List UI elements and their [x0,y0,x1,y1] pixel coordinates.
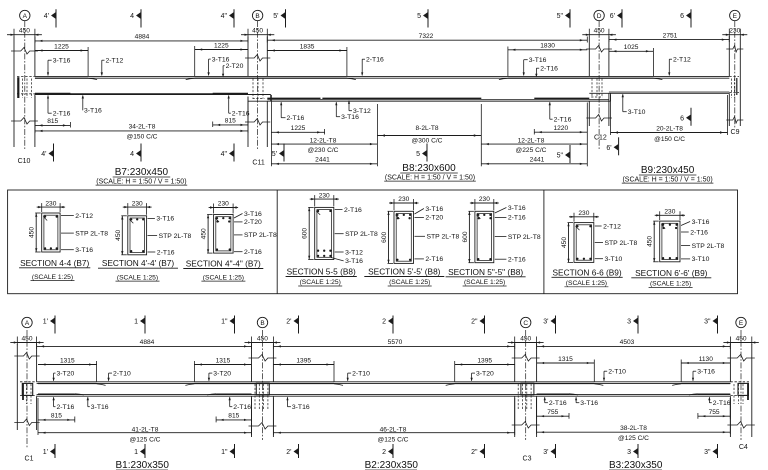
svg-text:1315: 1315 [558,356,573,363]
svg-text:34-2L-T8: 34-2L-T8 [129,123,156,130]
svg-text:2-T12: 2-T12 [603,223,621,230]
svg-text:1: 1 [134,449,138,456]
svg-text:450: 450 [736,335,747,342]
svg-text:2-T12: 2-T12 [75,213,93,220]
svg-text:6: 6 [680,13,684,20]
svg-text:3-T16: 3-T16 [75,247,93,254]
svg-text:STP 2L-T8: STP 2L-T8 [508,234,541,241]
svg-text:3-T10: 3-T10 [628,109,646,116]
svg-text:2-T16: 2-T16 [53,111,71,118]
svg-text:2-T16: 2-T16 [425,256,443,263]
svg-text:(SCALE 1:25): (SCALE 1:25) [650,281,691,288]
svg-text:3-T16: 3-T16 [529,57,547,64]
svg-text:815: 815 [228,413,239,420]
svg-text:2-T16: 2-T16 [540,66,558,73]
svg-text:450: 450 [29,227,36,238]
svg-text:1025: 1025 [624,44,639,51]
svg-text:2-T10: 2-T10 [608,369,626,376]
svg-text:STP 2L-T8: STP 2L-T8 [605,240,638,247]
svg-text:2-T16: 2-T16 [233,404,251,411]
svg-text:450: 450 [647,236,654,247]
svg-text:6': 6' [610,13,615,20]
svg-text:(SCALE: H = 1:50 / V = 1:50): (SCALE: H = 1:50 / V = 1:50) [622,176,712,183]
svg-text:(SCALE 1:25): (SCALE 1:25) [300,279,341,286]
svg-text:1225: 1225 [291,125,306,132]
svg-text:E: E [739,320,744,327]
svg-text:C: C [523,320,528,327]
svg-text:STP 2L-T8: STP 2L-T8 [345,231,378,238]
svg-text:3-T10: 3-T10 [605,256,623,263]
svg-text:450: 450 [594,28,605,35]
svg-text:1315: 1315 [60,357,75,364]
svg-text:230: 230 [729,28,740,35]
svg-text:1": 1" [221,449,228,456]
svg-text:3: 3 [627,319,631,326]
svg-text:(SCALE 1:25): (SCALE 1:25) [566,280,607,287]
svg-text:5': 5' [272,151,277,158]
svg-text:1220: 1220 [553,125,568,132]
svg-text:1": 1" [221,319,228,326]
svg-text:SECTION 4-4 (B7): SECTION 4-4 (B7) [20,258,89,268]
svg-text:2-T16: 2-T16 [713,400,731,407]
svg-text:2-T10: 2-T10 [352,370,370,377]
svg-text:STP 2L-T8: STP 2L-T8 [427,234,460,241]
svg-text:4': 4' [41,151,46,158]
svg-text:C3: C3 [523,456,532,463]
svg-text:12-2L-T8: 12-2L-T8 [518,137,545,144]
svg-text:3-T16: 3-T16 [244,211,262,218]
svg-text:815: 815 [51,413,62,420]
svg-text:B9:230x450: B9:230x450 [641,165,695,176]
svg-text:3-T16: 3-T16 [292,404,310,411]
svg-text:815: 815 [47,118,58,125]
svg-text:2': 2' [286,449,291,456]
svg-text:230: 230 [578,210,589,217]
svg-text:(SCALE 1:25): (SCALE 1:25) [389,279,430,286]
svg-text:@125 C/C: @125 C/C [618,435,649,442]
svg-text:1830: 1830 [540,43,555,50]
svg-text:1130: 1130 [699,356,714,363]
svg-text:4884: 4884 [140,339,155,346]
svg-text:4': 4' [44,13,49,20]
svg-text:20-2L-T8: 20-2L-T8 [656,126,683,133]
svg-text:STP 2L-T8: STP 2L-T8 [75,230,108,237]
svg-text:3: 3 [627,449,631,456]
svg-text:@300 C/C: @300 C/C [412,137,443,144]
svg-text:1: 1 [134,319,138,326]
svg-text:12-2L-T8: 12-2L-T8 [310,137,337,144]
svg-text:C1: C1 [25,456,34,463]
svg-text:450: 450 [520,335,531,342]
svg-text:4": 4" [221,13,228,20]
svg-text:2": 2" [471,449,478,456]
svg-text:2-T20: 2-T20 [226,63,244,70]
svg-text:A: A [25,320,30,327]
svg-text:B3:230x350: B3:230x350 [609,460,663,470]
svg-text:2441: 2441 [530,156,545,163]
svg-text:B: B [255,13,259,20]
svg-text:3": 3" [704,449,711,456]
svg-text:1395: 1395 [296,357,311,364]
svg-text:1395: 1395 [477,357,492,364]
svg-text:2-T16: 2-T16 [554,117,572,124]
svg-text:2-T16: 2-T16 [344,207,362,214]
svg-text:E: E [733,13,738,20]
svg-text:450: 450 [115,229,122,240]
svg-text:2-T16: 2-T16 [244,249,262,256]
svg-text:3-T16: 3-T16 [341,114,359,121]
svg-text:3-T16: 3-T16 [697,369,715,376]
svg-text:3-T16: 3-T16 [345,258,363,265]
svg-text:3-T20: 3-T20 [213,370,231,377]
svg-text:5: 5 [417,13,421,20]
svg-text:C11: C11 [252,160,264,167]
svg-text:SECTION 6'-6' (B9): SECTION 6'-6' (B9) [635,268,708,278]
svg-text:(SCALE 1:25): (SCALE 1:25) [117,274,158,281]
svg-text:3-T10: 3-T10 [692,256,710,263]
svg-text:6': 6' [606,145,611,152]
svg-text:2": 2" [471,319,478,326]
svg-text:2-T20: 2-T20 [425,215,443,222]
svg-text:450: 450 [21,335,32,342]
svg-text:B8:230x600: B8:230x600 [402,163,456,174]
svg-text:STP 2L-T8: STP 2L-T8 [159,233,192,240]
svg-text:(SCALE 1:25): (SCALE 1:25) [464,279,505,286]
svg-text:3-T16: 3-T16 [508,205,526,212]
svg-text:3-T20: 3-T20 [476,370,494,377]
svg-text:450: 450 [257,335,268,342]
svg-text:230: 230 [45,200,56,207]
svg-text:2-T16: 2-T16 [287,115,305,122]
svg-text:230: 230 [664,209,675,216]
svg-text:5570: 5570 [388,339,403,346]
svg-text:4: 4 [130,151,134,158]
svg-text:D: D [597,13,602,20]
svg-text:450: 450 [19,28,30,35]
svg-text:1835: 1835 [300,43,315,50]
svg-text:@225 C/C: @225 C/C [516,147,547,154]
svg-text:2441: 2441 [315,156,330,163]
svg-text:3': 3' [543,319,548,326]
svg-text:C9: C9 [731,129,740,136]
svg-text:600: 600 [302,228,309,239]
svg-text:2-T16: 2-T16 [690,229,708,236]
svg-text:755: 755 [547,409,558,416]
svg-text:3-T20: 3-T20 [57,370,75,377]
svg-text:5': 5' [273,13,278,20]
svg-text:2-T10: 2-T10 [113,370,131,377]
svg-text:1': 1' [43,319,48,326]
svg-text:5": 5" [557,13,564,20]
svg-text:(SCALE: H = 1:50 / V = 1:50): (SCALE: H = 1:50 / V = 1:50) [96,178,186,185]
svg-text:3-T16: 3-T16 [692,219,710,226]
svg-text:3-T16: 3-T16 [425,206,443,213]
svg-text:450: 450 [252,28,263,35]
svg-text:4: 4 [130,13,134,20]
svg-text:3-T16: 3-T16 [53,58,71,65]
svg-text:C10: C10 [18,158,31,165]
svg-text:@230 C/C: @230 C/C [308,147,339,154]
svg-text:A: A [23,13,28,20]
svg-text:1225: 1225 [54,43,69,50]
svg-text:STP 2L-T8: STP 2L-T8 [244,232,277,239]
svg-text:@150 C/C: @150 C/C [127,134,158,141]
svg-text:5: 5 [416,151,420,158]
svg-text:230: 230 [398,196,409,203]
svg-text:38-2L-T8: 38-2L-T8 [620,425,647,432]
svg-text:450: 450 [561,237,568,248]
svg-text:2: 2 [382,319,386,326]
svg-text:4884: 4884 [135,34,150,41]
svg-text:@150 C/C: @150 C/C [654,136,685,143]
svg-text:3-T16: 3-T16 [84,108,102,115]
svg-text:B2:230x350: B2:230x350 [365,460,419,470]
svg-text:SECTION 5-5 (B8): SECTION 5-5 (B8) [287,267,356,277]
svg-text:230: 230 [132,200,143,207]
svg-text:SECTION 4'-4' (B7): SECTION 4'-4' (B7) [102,258,175,268]
svg-text:230: 230 [319,192,330,199]
svg-text:600: 600 [381,231,388,242]
svg-text:SECTION 5"-5" (B8): SECTION 5"-5" (B8) [448,267,523,277]
svg-text:450: 450 [201,228,208,239]
svg-text:2-T16: 2-T16 [366,57,384,64]
svg-text:3": 3" [704,319,711,326]
svg-text:2-T16: 2-T16 [549,400,567,407]
svg-text:5": 5" [557,153,564,160]
svg-text:3-T16: 3-T16 [580,400,598,407]
svg-text:1315: 1315 [216,357,231,364]
svg-text:3-T12: 3-T12 [345,249,363,256]
svg-text:815: 815 [225,118,236,125]
svg-text:(SCALE 1:25): (SCALE 1:25) [203,274,244,281]
svg-text:B1:230x350: B1:230x350 [116,460,170,470]
svg-text:2-T16: 2-T16 [508,257,526,264]
svg-text:3-T16: 3-T16 [91,404,109,411]
svg-text:1': 1' [43,449,48,456]
svg-text:B: B [260,320,264,327]
svg-text:STP 2L-T8: STP 2L-T8 [692,243,725,250]
svg-text:2: 2 [382,449,386,456]
svg-text:@125 C/C: @125 C/C [378,437,409,444]
svg-text:2-T12: 2-T12 [673,57,691,64]
svg-text:2-T16: 2-T16 [232,111,250,118]
svg-text:7322: 7322 [419,33,434,40]
svg-text:4": 4" [221,151,228,158]
svg-text:3': 3' [543,449,548,456]
svg-text:@125 C/C: @125 C/C [130,437,161,444]
svg-text:C12: C12 [594,135,607,142]
svg-text:1225: 1225 [214,42,229,49]
svg-text:3-T16: 3-T16 [156,216,174,223]
svg-text:B7:230x450: B7:230x450 [115,167,169,178]
svg-text:2-T12: 2-T12 [106,58,124,65]
svg-text:2': 2' [286,319,291,326]
svg-text:6: 6 [680,115,684,122]
svg-text:2-T16: 2-T16 [508,215,526,222]
svg-text:SECTION 5'-5' (B8): SECTION 5'-5' (B8) [368,267,441,277]
svg-text:8-2L-T8: 8-2L-T8 [415,125,438,132]
svg-text:(SCALE: H = 1:50 / V = 1:50): (SCALE: H = 1:50 / V = 1:50) [385,174,475,181]
svg-text:2-T16: 2-T16 [57,404,75,411]
svg-text:SECTION 6-6 (B9): SECTION 6-6 (B9) [553,267,622,277]
svg-text:755: 755 [709,409,720,416]
svg-text:(SCALE 1:25): (SCALE 1:25) [32,274,73,281]
svg-text:SECTION 4"-4" (B7): SECTION 4"-4" (B7) [186,259,261,269]
svg-text:600: 600 [462,231,469,242]
svg-text:2-T16: 2-T16 [157,249,175,256]
svg-text:2-T20: 2-T20 [244,219,262,226]
svg-text:C4: C4 [739,444,748,451]
svg-text:2751: 2751 [663,32,678,39]
svg-text:230: 230 [218,201,229,208]
svg-text:3-T12: 3-T12 [353,108,371,115]
svg-text:4503: 4503 [620,339,635,346]
svg-text:230: 230 [479,196,490,203]
